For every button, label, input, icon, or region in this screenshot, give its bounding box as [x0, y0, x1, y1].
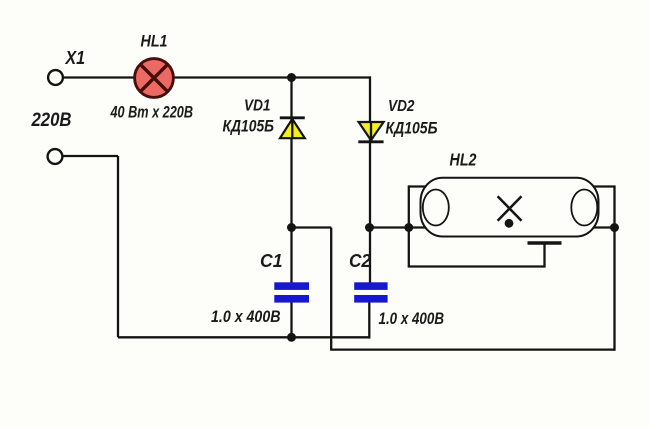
- wire bottom terminal stub: [63, 155, 119, 157]
- svg-text:VD2: VD2: [388, 98, 415, 115]
- svg-text:HL1: HL1: [141, 33, 168, 51]
- wire bottom horizontal: [118, 336, 369, 338]
- wire right vertical of HL2: [613, 187, 615, 351]
- terminal X1 bottom: [48, 149, 63, 164]
- wire HL2 left bracket vertical: [408, 185, 410, 266]
- lamp HL2 tube: [421, 178, 599, 237]
- wire vertical VD1/C1 branch upper: [290, 78, 292, 283]
- svg-text:X1: X1: [65, 47, 85, 68]
- wire from C2 node to HL2 left pins: [370, 226, 426, 228]
- terminal X1 top: [48, 70, 63, 85]
- wire lower horizontal to right: [330, 348, 614, 350]
- diode VD1: [280, 118, 305, 138]
- wire HL2 bracket stem up: [543, 243, 545, 268]
- wire top from X1 to HL1 and to VD2 branch corner: [63, 76, 371, 78]
- node junction C2 top: [365, 223, 374, 232]
- svg-text:HL2: HL2: [450, 150, 477, 170]
- wire HL2 left top pin: [409, 185, 425, 187]
- diode VD2: [358, 122, 383, 142]
- wire HL2 right top pin: [594, 185, 616, 187]
- node junction at top wire / VD1 branch: [287, 73, 296, 82]
- svg-text:КД105Б: КД105Б: [223, 118, 275, 136]
- node junction HL2 left: [404, 223, 413, 232]
- node junction HL2 right: [610, 223, 619, 232]
- wire vertical VD1/C1 branch lower: [290, 303, 292, 338]
- svg-text:1.0 х 400В: 1.0 х 400В: [379, 310, 445, 328]
- capacitor C2 plates: [354, 282, 387, 302]
- svg-text:C2: C2: [349, 250, 372, 271]
- wire mid horizontal from C1 node to x=331: [292, 226, 332, 228]
- wire vertical x=331 down: [330, 228, 332, 350]
- wire HL2 right bottom pin: [594, 226, 615, 228]
- wire vertical VD2/C2 branch upper: [369, 76, 371, 282]
- wire vertical VD2/C2 branch lower: [368, 303, 370, 339]
- HL2 base contact bar: [528, 241, 562, 244]
- node junction C1 top: [287, 223, 296, 232]
- svg-text:1.0 х 400В: 1.0 х 400В: [211, 308, 281, 326]
- wire HL2 bracket bottom horizontal: [408, 265, 545, 267]
- svg-text:220В: 220В: [31, 109, 72, 131]
- svg-text:КД105Б: КД105Б: [386, 120, 438, 138]
- lamp HL1: [135, 59, 174, 98]
- svg-text:C1: C1: [260, 250, 283, 271]
- wire left vertical down: [117, 156, 119, 337]
- node junction C1 bottom: [287, 333, 296, 342]
- svg-text:VD1: VD1: [244, 98, 271, 115]
- capacitor C1 plates: [274, 282, 309, 302]
- svg-text:40 Вт х 220В: 40 Вт х 220В: [110, 104, 193, 122]
